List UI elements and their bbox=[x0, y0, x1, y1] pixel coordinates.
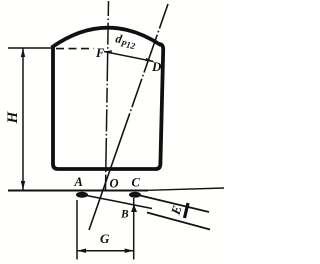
plate lower edge bbox=[147, 213, 210, 230]
dashed chord line at cap base bbox=[56, 48, 94, 50]
G dimension line bbox=[77, 250, 134, 252]
G right arrow bbox=[125, 249, 134, 253]
svg-text:D: D bbox=[151, 59, 162, 74]
bottle body outline bbox=[53, 44, 163, 169]
svg-text:F: F bbox=[95, 46, 105, 60]
svg-text:H: H bbox=[5, 110, 21, 124]
vertical dash-dot center line bbox=[106, 1, 109, 190]
svg-text:O: O bbox=[110, 177, 119, 191]
svg-text:B: B bbox=[120, 209, 129, 221]
H top extension line bbox=[8, 47, 51, 49]
ground line continuation right bbox=[148, 188, 224, 190]
svg-text:C: C bbox=[132, 176, 141, 190]
G left extension line bbox=[76, 200, 78, 260]
B point arrow bbox=[131, 205, 137, 213]
section tick on plate bbox=[185, 203, 189, 218]
line A through B bbox=[77, 194, 152, 209]
H bottom arrow bbox=[21, 181, 25, 190]
d_p12 left arrowhead bbox=[104, 50, 112, 54]
inclined dash-dot axis bbox=[89, 4, 168, 230]
support blob at A bbox=[76, 192, 88, 198]
ground line bbox=[8, 190, 148, 192]
d_p12 dimension line F to axis bbox=[104, 52, 154, 62]
plate upper edge from C bbox=[136, 195, 209, 213]
G right extension line bbox=[133, 198, 135, 260]
H dimension line bbox=[22, 48, 24, 190]
d_p12 right arrowhead bbox=[146, 58, 154, 62]
support blob at C bbox=[129, 192, 141, 198]
top arc of bottle bbox=[52, 28, 162, 48]
H top arrow bbox=[21, 48, 25, 57]
svg-text:A: A bbox=[74, 175, 83, 189]
svg-text:G: G bbox=[100, 231, 110, 246]
G left arrow bbox=[77, 249, 86, 253]
